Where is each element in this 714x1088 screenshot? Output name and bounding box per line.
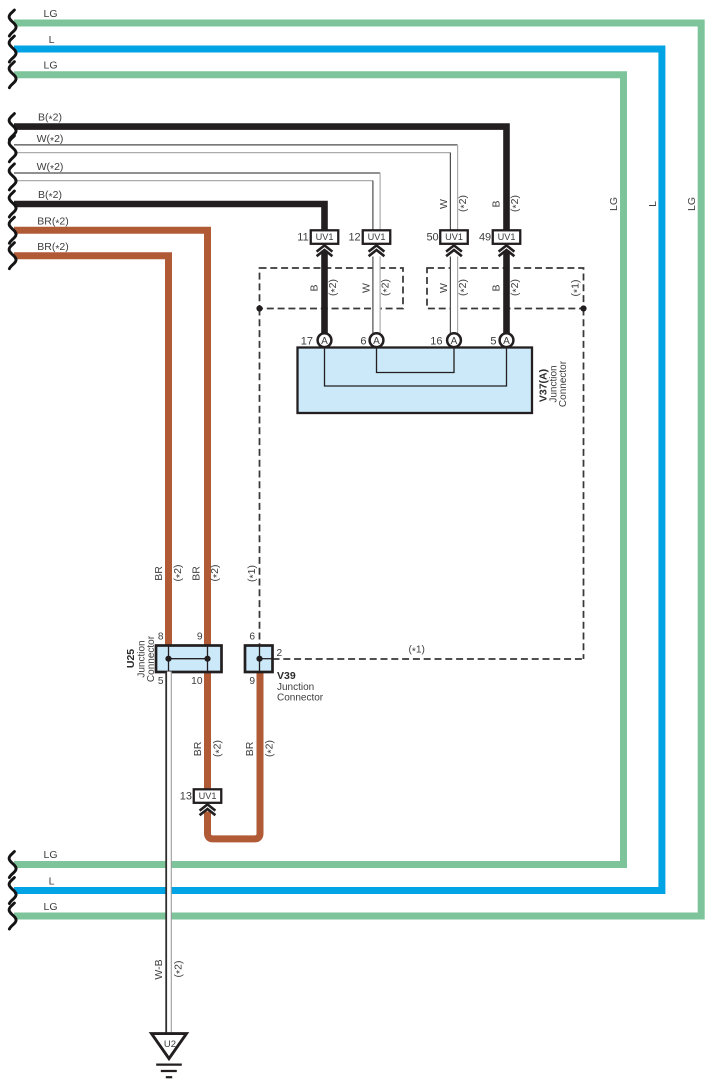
- U25 internal pin line 8-5: [168, 646, 170, 673]
- svg-text:(*1): (*1): [246, 565, 260, 582]
- svg-text:49: 49: [479, 232, 491, 244]
- svg-text:W: W: [361, 283, 373, 293]
- wire W segment UV1 50 to terminal A16: [450, 257, 457, 338]
- V39 internal pin line 6-9: [259, 646, 261, 673]
- V39 junction dot: [256, 656, 262, 662]
- svg-text:(*2): (*2): [209, 565, 223, 582]
- svg-text:LG: LG: [43, 8, 57, 20]
- svg-text:Junction: Junction: [277, 682, 314, 693]
- connector UV1 (pin 12): [363, 230, 391, 256]
- junction connector U25 body: [156, 646, 222, 673]
- wire L loop: [14, 49, 662, 891]
- connector UV1 (pin 13): [194, 789, 222, 815]
- svg-text:W(*2): W(*2): [37, 161, 64, 175]
- U25 internal pin line 9-10: [207, 646, 209, 673]
- rotated wire color labels: [153, 195, 698, 980]
- svg-text:(*2): (*2): [327, 279, 341, 296]
- svg-text:9: 9: [249, 676, 255, 687]
- svg-text:B: B: [491, 284, 503, 291]
- svg-text:5: 5: [158, 676, 164, 687]
- connector UV1 (pin 50): [440, 230, 468, 256]
- junction connector V39 body: [245, 646, 273, 673]
- svg-text:(*2): (*2): [172, 565, 186, 582]
- label V37(A) Junction Connector: [538, 360, 570, 407]
- svg-text:Connector: Connector: [558, 360, 569, 407]
- svg-text:A: A: [373, 336, 380, 347]
- svg-text:L: L: [49, 876, 55, 888]
- wire labels left side: [37, 8, 69, 913]
- svg-text:UV1: UV1: [445, 232, 463, 242]
- svg-text:10: 10: [191, 676, 203, 687]
- svg-text:BR: BR: [192, 741, 204, 756]
- svg-text:LG: LG: [43, 60, 57, 72]
- svg-text:UV1: UV1: [316, 232, 334, 242]
- junction connector V37(A) body: [298, 348, 533, 414]
- svg-text:12: 12: [348, 232, 360, 244]
- svg-text:UV1: UV1: [498, 232, 516, 242]
- shield drain dashed wire right: [583, 309, 585, 660]
- svg-text:(*2): (*2): [212, 740, 226, 757]
- wire W(*2) lower to UV1 12: [14, 173, 380, 232]
- svg-text:LG: LG: [686, 197, 698, 211]
- U25 junction dot right: [204, 656, 210, 662]
- svg-text:LG: LG: [43, 901, 57, 913]
- svg-text:(*2): (*2): [509, 279, 523, 296]
- svg-text:B(*2): B(*2): [38, 112, 62, 126]
- svg-text:BR: BR: [244, 741, 256, 756]
- svg-text:W: W: [438, 199, 450, 209]
- svg-text:UV1: UV1: [199, 791, 217, 801]
- svg-text:8: 8: [158, 632, 164, 643]
- svg-text:U2: U2: [164, 1039, 176, 1050]
- svg-text:(*2): (*2): [172, 961, 186, 978]
- svg-text:B: B: [309, 284, 321, 291]
- svg-text:B(*2): B(*2): [38, 189, 62, 203]
- svg-text:BR(*2): BR(*2): [37, 216, 69, 230]
- svg-text:A: A: [451, 336, 458, 347]
- wire LG outer loop: [14, 23, 701, 916]
- wire-break squiggle symbols at loose ends: [9, 10, 16, 929]
- V37(A) internal busbar A6-A16: [377, 348, 455, 373]
- wire W segment UV1 12 to terminal A6: [373, 257, 380, 338]
- svg-text:U25: U25: [125, 649, 137, 668]
- terminal A pin 17: [318, 333, 332, 347]
- svg-text:LG: LG: [608, 197, 620, 211]
- svg-text:13: 13: [180, 790, 192, 802]
- svg-text:B: B: [491, 200, 503, 207]
- connector UV1 (pin 49): [493, 230, 521, 256]
- shield drain dashed wire bottom (from V39 pin 2): [273, 658, 584, 660]
- svg-text:L: L: [647, 201, 659, 207]
- svg-text:A: A: [321, 336, 328, 347]
- svg-text:BR: BR: [153, 566, 165, 581]
- connector UV1 (pin 11): [311, 230, 339, 256]
- U25 internal busbar: [169, 658, 208, 660]
- wire W-B U25 pin 5 to ground U2: [166, 672, 171, 1034]
- svg-text:11: 11: [297, 232, 308, 244]
- svg-text:50: 50: [426, 232, 438, 244]
- label U25 Junction Connector: [125, 635, 157, 682]
- svg-text:(*2): (*2): [379, 279, 393, 296]
- svg-text:W: W: [438, 283, 450, 293]
- svg-text:Connector: Connector: [277, 693, 324, 704]
- svg-text:UV1: UV1: [368, 232, 386, 242]
- svg-text:5: 5: [490, 335, 496, 347]
- wire B segment UV1 49 to terminal A5: [503, 251, 510, 338]
- svg-text:9: 9: [197, 632, 203, 643]
- shield drain dashed wire left (to V39 pin 6): [259, 309, 261, 647]
- terminal A pin 5: [500, 333, 514, 347]
- svg-text:2: 2: [277, 648, 283, 659]
- svg-text:(*1): (*1): [409, 645, 425, 658]
- svg-text:LG: LG: [43, 849, 57, 861]
- wire BR segment U25 pin 10 to UV1 13: [204, 672, 211, 791]
- svg-text:6: 6: [249, 632, 255, 643]
- svg-text:BR(*2): BR(*2): [37, 241, 69, 255]
- svg-text:(*2): (*2): [457, 195, 471, 212]
- svg-text:Connector: Connector: [146, 635, 157, 682]
- svg-text:BR: BR: [191, 566, 203, 581]
- junction dot left shield: [256, 305, 262, 311]
- junction dot right shield: [580, 305, 586, 311]
- wire BR(*2) lower to U25 pin 8: [14, 256, 169, 646]
- ground hatch lines: [156, 1065, 182, 1078]
- label V39 Junction Connector: [277, 670, 324, 704]
- U25 junction dot left: [165, 656, 171, 662]
- svg-text:16: 16: [430, 335, 442, 347]
- svg-text:V39: V39: [277, 670, 296, 682]
- ground U2 triangle: [152, 1034, 187, 1059]
- svg-text:(*2): (*2): [457, 279, 471, 296]
- wire BR U-path UV1 13 to V39 pin 9: [208, 672, 261, 839]
- wire LG inner loop: [14, 75, 624, 865]
- wire B(*2) upper to UV1 49: [14, 127, 507, 232]
- shield dashed box left: [260, 268, 404, 309]
- terminal A pin 6: [370, 333, 384, 347]
- wire B(*2) lower to UV1 11: [14, 204, 325, 232]
- svg-text:17: 17: [301, 335, 313, 347]
- wire W(*2) upper to UV1 50: [14, 145, 458, 232]
- svg-text:6: 6: [360, 335, 366, 347]
- svg-text:W(*2): W(*2): [37, 133, 64, 147]
- pin numbers: [180, 232, 497, 803]
- svg-text:(*2): (*2): [509, 195, 523, 212]
- V37(A) internal busbar A17-A5: [325, 348, 507, 386]
- wire BR(*2) upper to U25 pin 9: [14, 230, 208, 646]
- shield dashed box right: [427, 268, 584, 309]
- wire B segment UV1 11 to terminal A17: [321, 251, 328, 338]
- terminal A pin 16: [447, 333, 461, 347]
- svg-text:(*2): (*2): [264, 740, 278, 757]
- svg-text:(*1): (*1): [570, 280, 584, 297]
- svg-text:L: L: [49, 34, 55, 46]
- svg-text:W-B: W-B: [153, 959, 165, 979]
- svg-text:A: A: [503, 336, 510, 347]
- V39 internal line to pin 2: [260, 658, 273, 660]
